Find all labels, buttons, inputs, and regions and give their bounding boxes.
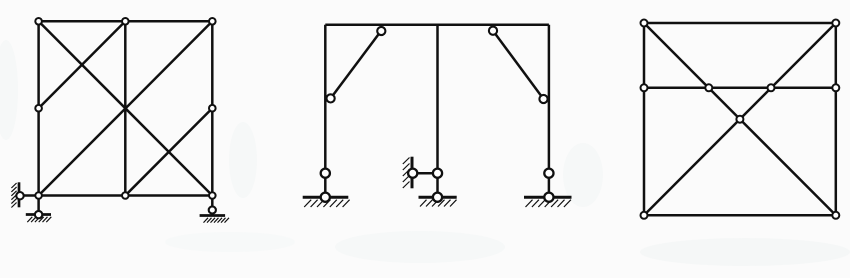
truss3 top chord	[644, 22, 836, 25]
frame2 right support ground pin	[544, 193, 553, 202]
truss1 bottom chord	[39, 194, 213, 197]
frame2 right support link	[548, 173, 551, 197]
frame2 top beam	[325, 24, 549, 27]
truss1 hinge BR	[209, 192, 216, 199]
frame2 center column	[436, 25, 439, 173]
background texture blob bottom-right	[640, 238, 850, 266]
truss1 ground hatching (left support)	[27, 217, 51, 222]
frame2 right support upper pin	[544, 169, 553, 178]
frame2 left support ground line	[303, 196, 349, 199]
truss3 diagonal TL-BR	[644, 23, 836, 215]
frame2 left support ground pin	[321, 193, 330, 202]
frame2 left strut upper pin	[377, 27, 385, 35]
frame2 left support link	[324, 173, 327, 197]
frame2 right support ground line	[524, 196, 572, 199]
truss1 wall hatching	[11, 183, 16, 208]
truss3 hinge center	[736, 116, 743, 123]
truss1 diagonal BM-MR	[125, 108, 212, 195]
frame2 center wall pin	[408, 169, 417, 178]
truss1 horizontal link to wall	[20, 194, 39, 197]
frame2 right strut upper pin	[489, 27, 497, 35]
truss1 top chord	[39, 20, 213, 23]
frame2 center wall bar	[411, 157, 414, 189]
truss1 hinge TL	[35, 18, 42, 25]
truss1 diagonal TR-BL	[39, 21, 213, 195]
truss1 hinge BM	[122, 192, 129, 199]
truss3 hinge chord-diagonal left	[705, 84, 712, 91]
frame2 center vertical link to ground	[436, 173, 439, 197]
background texture blob bottom-left	[165, 232, 295, 252]
truss1 right chord	[211, 21, 214, 195]
frame2 right support ground hatching	[526, 200, 571, 207]
truss1 ground line (right support)	[200, 214, 226, 217]
truss3 hinge TL	[641, 20, 648, 27]
truss3 bottom chord	[644, 214, 836, 217]
truss1 hinge BL	[35, 192, 42, 199]
frame2 center ground line	[419, 196, 457, 199]
background texture blob center	[335, 231, 505, 263]
frame2 center ground hatching	[420, 200, 457, 207]
background texture blob center-left	[229, 122, 257, 198]
frame2 right strut lower pin	[539, 95, 547, 103]
truss3 hinge mid-right	[832, 84, 839, 91]
truss3 left chord	[643, 23, 646, 215]
truss1 wall pin	[16, 192, 23, 199]
truss3 hinge chord-diagonal right	[768, 84, 775, 91]
frame2 left support upper pin	[321, 169, 330, 178]
background texture blob left	[0, 40, 18, 140]
truss3 middle chord	[644, 87, 836, 90]
truss1 hinge TR	[209, 18, 216, 25]
frame2 left column	[324, 25, 327, 173]
truss1 hinge ML	[35, 105, 42, 112]
truss3 hinge mid-left	[641, 84, 648, 91]
frame2 center column pin	[433, 169, 442, 178]
truss1 ground pin (left support)	[35, 211, 42, 218]
frame2 right column	[548, 25, 551, 173]
truss3 hinge TR	[832, 20, 839, 27]
truss1 vertical link to ground	[37, 196, 40, 215]
truss1 hinge TM	[122, 18, 129, 25]
frame2 left strut	[331, 31, 381, 98]
truss1 ground line (left support)	[26, 213, 51, 216]
truss1 center post	[124, 21, 127, 195]
frame2 right strut	[493, 31, 544, 99]
truss3 hinge BR	[832, 212, 839, 219]
frame2 center wall hatching	[403, 158, 410, 189]
frame2 left strut lower pin	[327, 94, 335, 102]
frame2 center ground pin	[433, 193, 442, 202]
truss1 hinge MR	[209, 105, 216, 112]
truss1 diagonal TL-BR	[39, 21, 213, 195]
truss3 diagonal TR-BL	[644, 23, 836, 215]
truss1 wall bar (left support)	[18, 182, 21, 207]
background texture blob center-right	[563, 143, 603, 207]
truss1 roller link (right support)	[211, 196, 214, 211]
frame2 left support ground hatching	[304, 200, 349, 207]
truss1 diagonal TM-ML	[39, 21, 126, 108]
truss1 left chord	[37, 21, 40, 195]
truss3 hinge BL	[641, 212, 648, 219]
truss1 ground hatching (right support)	[204, 218, 230, 223]
truss1 roller pin (right support)	[209, 206, 216, 213]
truss3 right chord	[835, 23, 838, 215]
frame2 center horizontal link to wall	[413, 172, 438, 175]
